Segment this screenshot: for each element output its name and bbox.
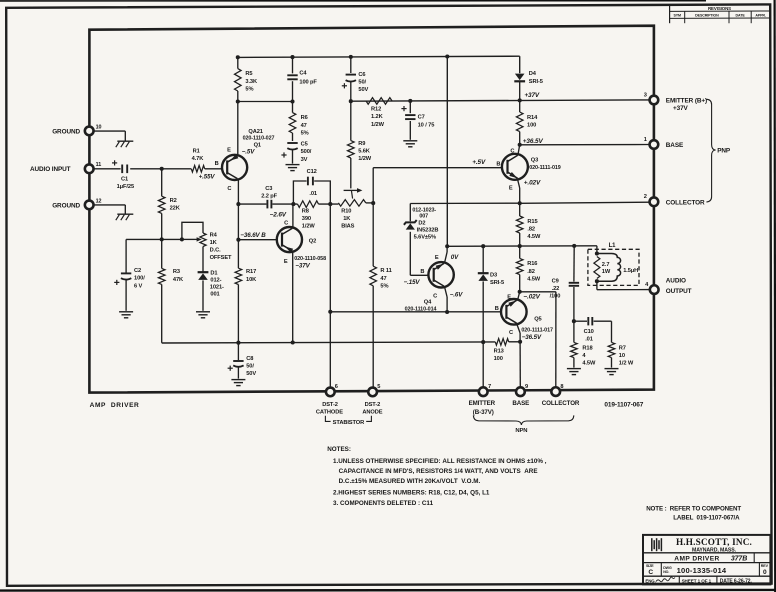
svg-text:5: 5 bbox=[377, 384, 380, 390]
svg-text:020-1111-019: 020-1111-019 bbox=[529, 165, 561, 171]
svg-text:OUTPUT: OUTPUT bbox=[666, 288, 692, 295]
svg-text:22K: 22K bbox=[170, 206, 181, 212]
wire R5-C4 link bbox=[238, 101, 293, 103]
wire bottom bus bbox=[162, 342, 496, 343]
node bus C6 bbox=[349, 55, 353, 59]
svg-text:1/2 W: 1/2 W bbox=[619, 361, 634, 367]
svg-text:10: 10 bbox=[619, 353, 625, 359]
wire bottom bus b bbox=[509, 341, 520, 343]
svg-text:5%: 5% bbox=[245, 87, 253, 93]
node R2-R3 bbox=[160, 237, 164, 241]
label E Q2 bbox=[284, 259, 288, 265]
label -36.6V B bbox=[240, 232, 266, 239]
svg-text:1/2W: 1/2W bbox=[302, 224, 316, 230]
node L1 bottom bbox=[595, 279, 599, 283]
svg-text:500/: 500/ bbox=[301, 149, 312, 155]
wire row204 c bbox=[319, 203, 339, 205]
wire R9 stems bbox=[350, 101, 352, 188]
svg-text:.22: .22 bbox=[552, 286, 560, 292]
label NOTE label bbox=[673, 514, 740, 521]
label C Q5 bbox=[509, 330, 513, 336]
svg-text:C2: C2 bbox=[134, 268, 141, 274]
wire C2 to ground bbox=[125, 279, 127, 311]
wire Q3 emitter bbox=[517, 179, 519, 204]
svg-text:C3: C3 bbox=[265, 186, 272, 192]
svg-text:ANODE: ANODE bbox=[362, 410, 382, 416]
label B-37V bbox=[473, 409, 494, 416]
label 020-1111-017 bbox=[521, 328, 553, 334]
zener D2 bbox=[404, 220, 417, 230]
label 0V bbox=[451, 254, 459, 261]
wire +37V rail bbox=[351, 100, 650, 101]
svg-text:R17: R17 bbox=[246, 269, 256, 275]
label 020-1110-027 bbox=[243, 136, 275, 142]
svg-text:C: C bbox=[509, 330, 513, 336]
wire D4 to rail bbox=[519, 82, 521, 100]
resistor R16 bbox=[516, 258, 540, 282]
svg-text:MAYNARD, MASS.: MAYNARD, MASS. bbox=[692, 547, 737, 553]
wire Q4 base bbox=[410, 274, 428, 276]
svg-text:R6: R6 bbox=[301, 115, 308, 121]
label C Q4 bbox=[433, 294, 437, 300]
label AUDIO INPUT bbox=[30, 166, 71, 173]
svg-text:Q4: Q4 bbox=[424, 300, 432, 306]
wire Q3 collector bbox=[518, 145, 520, 155]
terminal 10 bbox=[85, 124, 102, 135]
wiper arrow R10 bbox=[344, 188, 363, 199]
svg-text:SRI-5: SRI-5 bbox=[529, 79, 543, 85]
wire Q1C to Q2base node bbox=[237, 204, 239, 240]
svg-text:4: 4 bbox=[582, 353, 586, 359]
wire D2 stem bbox=[409, 204, 411, 276]
svg-text:E: E bbox=[435, 255, 439, 261]
wire terminal10 ground bbox=[93, 131, 125, 141]
svg-text:C7: C7 bbox=[418, 115, 425, 121]
wire R3 riser bbox=[161, 239, 163, 342]
diode D3 bbox=[478, 272, 504, 286]
resistor R17 bbox=[235, 268, 257, 284]
svg-text:4: 4 bbox=[645, 282, 649, 288]
label BASE bbox=[666, 142, 684, 149]
svg-text:C: C bbox=[433, 294, 437, 300]
svg-text:−36.5V: −36.5V bbox=[522, 334, 542, 341]
svg-text:R10: R10 bbox=[341, 208, 351, 214]
wire C8 ground stem bbox=[237, 367, 239, 379]
svg-text:7: 7 bbox=[488, 384, 491, 390]
capacitor C6 bbox=[342, 72, 369, 93]
node D2-T2 junction bbox=[518, 201, 522, 205]
svg-text:B: B bbox=[215, 161, 219, 167]
svg-text:100: 100 bbox=[494, 356, 503, 362]
svg-text:377B: 377B bbox=[731, 556, 747, 563]
resistor R7 bbox=[608, 342, 634, 366]
svg-text:SRI-5: SRI-5 bbox=[490, 280, 504, 286]
label 020-1111-019 bbox=[529, 165, 561, 171]
svg-text:R 11: R 11 bbox=[380, 268, 391, 274]
inductor L1 coil bbox=[597, 254, 621, 282]
terminal 1 bbox=[644, 137, 659, 149]
label 007 bbox=[419, 214, 428, 220]
terminal 7 bbox=[479, 384, 491, 396]
scan edge top bbox=[0, 0, 706, 2]
node row C12R bbox=[328, 202, 332, 206]
capacitor C2 bbox=[114, 268, 145, 290]
wire R7 ground stem bbox=[611, 358, 613, 368]
svg-text:COLLECTOR: COLLECTOR bbox=[542, 400, 580, 407]
svg-text:−.6V: −.6V bbox=[450, 291, 463, 298]
wire Q1 emitter riser bbox=[237, 91, 239, 155]
svg-text:5.6V±5%: 5.6V±5% bbox=[414, 234, 436, 240]
label DST-2 anode bbox=[362, 402, 382, 415]
node bus riser bbox=[445, 54, 449, 58]
svg-text:SHEET 1 OF 1: SHEET 1 OF 1 bbox=[682, 578, 712, 583]
label 5.6Vpm5 bbox=[414, 234, 436, 240]
svg-text:+37V: +37V bbox=[524, 92, 540, 99]
svg-text:SYM: SYM bbox=[673, 14, 681, 18]
schematic frame bbox=[89, 26, 654, 393]
svg-text:NOTES:: NOTES: bbox=[327, 446, 351, 453]
wire T5 riser bbox=[372, 203, 374, 388]
svg-text:020-1110-014: 020-1110-014 bbox=[405, 306, 437, 312]
wire top riser x447 bbox=[446, 57, 448, 247]
wiper arrow R4 bbox=[195, 237, 202, 241]
label L1 bbox=[609, 243, 617, 249]
svg-text:D2: D2 bbox=[418, 220, 425, 226]
wire R16 stems bbox=[519, 246, 521, 292]
resistor R14 bbox=[516, 112, 538, 132]
svg-text:R1: R1 bbox=[193, 149, 200, 155]
svg-text:1.UNLESS OTHERWISE SPECIFIED:: 1.UNLESS OTHERWISE SPECIFIED: ALL RESIST… bbox=[333, 458, 547, 465]
wire Q3base riser bbox=[372, 168, 374, 203]
wire R14 stems bbox=[519, 100, 521, 144]
label DST-2 cathode bbox=[316, 402, 343, 415]
svg-text:C: C bbox=[284, 220, 288, 226]
svg-text:C6: C6 bbox=[358, 72, 365, 78]
wire D2 top wire bbox=[410, 202, 519, 204]
wire C8 stem bbox=[237, 343, 239, 360]
label Q3 bbox=[531, 157, 538, 163]
wire R6 stems bbox=[292, 102, 294, 142]
wire L1 to T4 bbox=[597, 281, 650, 290]
svg-text:BASE: BASE bbox=[512, 400, 529, 407]
svg-text:47: 47 bbox=[380, 276, 386, 282]
svg-text:R4: R4 bbox=[210, 232, 218, 238]
wire top bus bbox=[238, 56, 520, 57]
node row246 a bbox=[445, 244, 449, 248]
svg-text:R8: R8 bbox=[302, 208, 309, 214]
svg-text:R18: R18 bbox=[582, 345, 592, 351]
svg-text:1K: 1K bbox=[210, 240, 218, 246]
svg-text:DST-2: DST-2 bbox=[322, 402, 338, 408]
capacitor C4 bbox=[287, 71, 317, 86]
node bus R13R bbox=[518, 340, 522, 344]
ground C8 bbox=[231, 380, 245, 386]
svg-text:BASE: BASE bbox=[666, 142, 684, 149]
label 020-1110-014 bbox=[405, 306, 437, 312]
bracket stabistor bbox=[325, 416, 371, 426]
svg-text:E: E bbox=[227, 147, 231, 153]
label 019-1107-067 bbox=[604, 401, 643, 408]
resistor R8 bbox=[298, 201, 319, 230]
svg-text:0V: 0V bbox=[451, 254, 459, 261]
node link R5 bbox=[236, 99, 240, 103]
scan edge bottom bbox=[0, 589, 776, 592]
svg-text:B: B bbox=[495, 306, 499, 312]
transistor Q4 bbox=[428, 262, 453, 287]
svg-text:012-: 012- bbox=[210, 277, 221, 283]
wire row246 bbox=[447, 245, 597, 248]
node rail C6 bbox=[349, 99, 353, 103]
svg-text:1K: 1K bbox=[343, 216, 351, 222]
svg-text:CATHODE: CATHODE bbox=[316, 410, 343, 416]
svg-text:D1: D1 bbox=[210, 270, 217, 276]
transistor Q3 bbox=[502, 154, 528, 180]
label B Q5 bbox=[495, 306, 499, 312]
capacitor C3 bbox=[261, 186, 277, 208]
wire R1 to Q1 base bbox=[205, 168, 222, 170]
svg-text:11: 11 bbox=[96, 162, 102, 168]
svg-text:2.7: 2.7 bbox=[602, 262, 610, 268]
svg-text:10K: 10K bbox=[246, 277, 257, 283]
wire C4 stems bbox=[292, 57, 294, 101]
svg-text:50/: 50/ bbox=[358, 80, 366, 86]
brace PNP bbox=[706, 99, 715, 202]
svg-text:+36.5V: +36.5V bbox=[523, 138, 544, 145]
svg-text:6 V: 6 V bbox=[134, 283, 143, 289]
svg-text:C9: C9 bbox=[552, 278, 559, 284]
ground R18 bbox=[567, 369, 581, 375]
terminal 6 bbox=[326, 384, 338, 396]
label 012-1023- bbox=[412, 207, 436, 213]
svg-text:50/: 50/ bbox=[246, 363, 254, 369]
svg-text:6: 6 bbox=[335, 384, 338, 390]
svg-text:C1: C1 bbox=[121, 176, 128, 182]
node L1 top bbox=[595, 251, 599, 255]
svg-text:020-1110-027: 020-1110-027 bbox=[243, 136, 275, 142]
svg-text:4.5W: 4.5W bbox=[582, 361, 596, 367]
wire D4 stem bbox=[519, 56, 521, 73]
svg-text:012-1023-: 012-1023- bbox=[412, 207, 436, 213]
label -36.5V bbox=[522, 334, 542, 341]
wire base36 to T1 bbox=[520, 144, 650, 146]
transistor Q1 bbox=[222, 154, 247, 180]
svg-text:R5: R5 bbox=[245, 71, 252, 77]
node row246 C9 bbox=[572, 244, 576, 248]
svg-text:L1: L1 bbox=[609, 243, 617, 249]
terminal 9 bbox=[516, 384, 528, 396]
node Q2 base bbox=[236, 238, 240, 242]
label D2 bbox=[418, 220, 425, 226]
svg-text:D.C.: D.C. bbox=[210, 248, 221, 254]
svg-text:−.5V: −.5V bbox=[242, 148, 255, 155]
node bus Q2E bbox=[291, 340, 295, 344]
svg-text:B: B bbox=[496, 162, 500, 168]
label COLLECTOR npn bbox=[542, 400, 580, 407]
label +37V bbox=[524, 92, 540, 99]
svg-text:STABISTOR: STABISTOR bbox=[333, 420, 364, 426]
svg-text:E: E bbox=[284, 259, 288, 265]
terminal 2 bbox=[644, 194, 659, 206]
svg-text:50V: 50V bbox=[246, 371, 256, 377]
wire Q2 collector bbox=[292, 204, 294, 227]
svg-text:100: 100 bbox=[527, 123, 536, 129]
label B Q4 bbox=[420, 269, 424, 275]
wire Q3 base bbox=[373, 167, 502, 169]
terminal 11 bbox=[85, 162, 101, 173]
capacitor C9 bbox=[550, 278, 580, 299]
node C10 row bbox=[572, 319, 576, 323]
transistor Q2 bbox=[277, 227, 302, 253]
diode D1 bbox=[198, 270, 224, 297]
svg-text:007: 007 bbox=[419, 214, 428, 220]
svg-text:019-1107-067: 019-1107-067 bbox=[604, 401, 643, 408]
svg-text:C8: C8 bbox=[246, 356, 253, 362]
svg-text:1W: 1W bbox=[602, 269, 611, 275]
terminal 5 bbox=[368, 384, 380, 396]
label GROUND bottom bbox=[52, 203, 80, 210]
svg-text:−.02V: −.02V bbox=[523, 293, 540, 300]
label PNP bbox=[717, 147, 731, 154]
wire C9 stems bbox=[573, 246, 575, 321]
svg-text:50V: 50V bbox=[358, 87, 368, 93]
svg-text:1.5μH: 1.5μH bbox=[623, 268, 638, 274]
terminal 4 bbox=[645, 282, 658, 294]
label -37V bbox=[295, 263, 310, 270]
note 1c bbox=[339, 478, 481, 485]
node row246 R15 bbox=[518, 244, 522, 248]
wire D1 to ground bbox=[202, 280, 204, 310]
label -.02V bbox=[523, 293, 540, 300]
wire Q4 emitter riser bbox=[445, 246, 448, 262]
svg-text:R13: R13 bbox=[494, 348, 504, 354]
svg-text:AUDIO: AUDIO bbox=[666, 278, 686, 285]
wire C6 stems bbox=[350, 57, 352, 101]
svg-text:H.H.SCOTT, INC.: H.H.SCOTT, INC. bbox=[676, 537, 752, 547]
svg-text:+37V: +37V bbox=[673, 105, 689, 112]
svg-text:AMP DRIVER: AMP DRIVER bbox=[90, 402, 140, 409]
svg-text:C: C bbox=[648, 569, 653, 576]
svg-text:2: 2 bbox=[644, 194, 647, 200]
wire C2 drop bbox=[125, 239, 127, 272]
label B Q3 bbox=[496, 162, 500, 168]
svg-text:001: 001 bbox=[210, 291, 219, 297]
label C Q3 bbox=[510, 149, 514, 155]
svg-text:020-1111-017: 020-1111-017 bbox=[521, 328, 553, 334]
svg-text:0: 0 bbox=[763, 569, 767, 576]
svg-text:PNP: PNP bbox=[717, 147, 731, 154]
svg-text:(B-37V): (B-37V) bbox=[473, 409, 494, 416]
svg-text:REV: REV bbox=[761, 564, 769, 568]
svg-text:Q2: Q2 bbox=[309, 238, 316, 244]
svg-text:3V: 3V bbox=[301, 157, 308, 163]
svg-text:QA21: QA21 bbox=[248, 129, 262, 135]
svg-text:B: B bbox=[420, 269, 424, 275]
terminal 12 bbox=[85, 198, 102, 209]
label NOTE refer bbox=[646, 505, 741, 512]
wire L1 entry bbox=[596, 246, 598, 254]
svg-text:4.5W: 4.5W bbox=[527, 234, 541, 240]
resistor R2 bbox=[158, 196, 180, 213]
resistor R12 bbox=[366, 98, 392, 128]
svg-text:390: 390 bbox=[302, 216, 311, 222]
label AMP DRIVER bbox=[90, 402, 140, 409]
terminal 3 bbox=[644, 92, 659, 104]
label OUTPUT bbox=[666, 288, 692, 295]
title block bbox=[643, 535, 770, 585]
wire terminal12 ground bbox=[93, 205, 125, 214]
wire Q5 base row bbox=[330, 311, 501, 313]
wire R15 stems bbox=[519, 203, 521, 246]
svg-text:D3: D3 bbox=[490, 272, 497, 278]
ground chassis T12 bbox=[116, 214, 134, 220]
svg-text:3. COMPONENTS DELETED : C11: 3. COMPONENTS DELETED : C11 bbox=[333, 500, 434, 507]
svg-text:−37V: −37V bbox=[295, 263, 310, 270]
svg-text:COLLECTOR: COLLECTOR bbox=[666, 199, 705, 206]
wire D3 to T7 bbox=[482, 281, 484, 388]
svg-text:R9: R9 bbox=[358, 141, 365, 147]
svg-text:GROUND: GROUND bbox=[52, 203, 80, 210]
node bus C4 bbox=[290, 55, 294, 59]
svg-text:.82: .82 bbox=[527, 269, 535, 275]
svg-text:.82: .82 bbox=[527, 227, 535, 233]
svg-text:C5: C5 bbox=[301, 142, 308, 148]
wire Q4 collector drop bbox=[445, 287, 448, 312]
ground C7 bbox=[403, 141, 417, 147]
label -.6V bbox=[450, 291, 463, 298]
svg-text:5%: 5% bbox=[301, 130, 309, 136]
label AUDIO bbox=[666, 278, 686, 285]
svg-text:SIZE: SIZE bbox=[646, 564, 654, 568]
inductor L1 box bbox=[588, 249, 639, 285]
svg-text:5.6K: 5.6K bbox=[358, 148, 371, 154]
wire row204 b bbox=[272, 203, 297, 205]
label -2.6V bbox=[270, 211, 287, 218]
node wiper loop bbox=[180, 237, 184, 241]
svg-text:IN5232B: IN5232B bbox=[417, 227, 439, 233]
svg-text:1/2W: 1/2W bbox=[371, 122, 385, 128]
wire wiper loop bbox=[182, 222, 203, 239]
svg-text:10: 10 bbox=[96, 124, 102, 130]
node +36.5V bbox=[518, 143, 522, 147]
label E Q1 bbox=[227, 147, 231, 153]
brace NPN bbox=[473, 415, 573, 425]
wire D3 stem bbox=[482, 246, 484, 272]
label +36.5V bbox=[523, 138, 544, 145]
svg-text:+.02V: +.02V bbox=[524, 179, 541, 186]
svg-text:Q3: Q3 bbox=[531, 157, 538, 163]
resistor R3 bbox=[158, 268, 184, 284]
svg-text:AUDIO INPUT: AUDIO INPUT bbox=[30, 166, 71, 173]
terminal 8 bbox=[551, 384, 563, 396]
svg-text:LABEL 019-1107-067/A: LABEL 019-1107-067/A bbox=[673, 514, 740, 521]
label +.5V Q3 bbox=[472, 159, 486, 166]
label 020-1110-058 bbox=[294, 256, 326, 262]
label BASE npn bbox=[512, 400, 529, 407]
resistor R1 bbox=[191, 149, 204, 173]
label E Q5 bbox=[507, 294, 511, 300]
svg-text:/100: /100 bbox=[550, 294, 561, 300]
wire C7 stems bbox=[409, 101, 411, 140]
svg-text:NOTE : REFER TO COMPONENT: NOTE : REFER TO COMPONENT bbox=[646, 505, 741, 512]
node rail C7 bbox=[408, 99, 412, 103]
svg-text:−2.6V: −2.6V bbox=[270, 211, 287, 218]
wire row204 d bbox=[366, 202, 373, 204]
svg-text:.01: .01 bbox=[309, 191, 317, 197]
resistor L1 2.7 bbox=[594, 257, 611, 279]
svg-text:D.C.±15% MEASURED WITH 20Kʌ/VO: D.C.±15% MEASURED WITH 20Kʌ/VOLT V.O.M. bbox=[339, 478, 481, 485]
svg-text:AMP DRIVER: AMP DRIVER bbox=[674, 555, 719, 562]
node R10 right bbox=[371, 201, 375, 205]
